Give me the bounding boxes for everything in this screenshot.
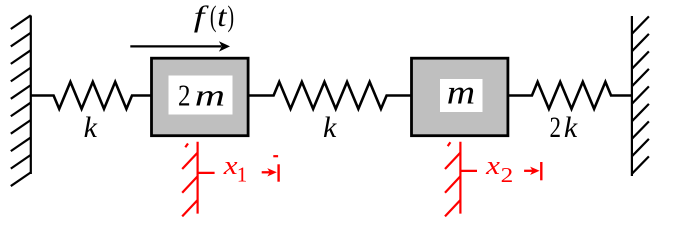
mass block m <box>412 58 508 136</box>
x2 arrow head <box>530 167 540 175</box>
svg-text:x: x <box>223 151 239 180</box>
svg-text:2m: 2m <box>178 78 225 113</box>
spring 2k (right, mass m to wall) <box>508 82 632 109</box>
force arrow shaft <box>130 45 221 47</box>
x1 measure bar <box>277 164 279 181</box>
x2 reference support line <box>459 142 461 214</box>
svg-text:k: k <box>323 111 337 144</box>
svg-text:2k: 2k <box>550 111 578 144</box>
right wall line <box>631 16 633 176</box>
right wall hatching <box>632 16 649 33</box>
x1 datum tick <box>198 172 215 174</box>
left wall hatching <box>11 15 31 29</box>
svg-text:f(t): f(t) <box>194 0 234 33</box>
svg-text:k: k <box>84 111 98 144</box>
x2 datum tick <box>460 170 477 172</box>
x2 measure bar <box>540 162 542 180</box>
svg-text:m: m <box>447 75 475 112</box>
svg-text:2: 2 <box>501 163 514 187</box>
white plate on mass 2m <box>169 76 233 115</box>
x2 support hatch tip <box>448 142 451 146</box>
left wall line <box>30 16 32 175</box>
white plate on mass m <box>440 79 483 112</box>
mass block 2m <box>152 58 249 136</box>
spring k (left, wall to mass 2m) <box>31 82 151 109</box>
x2 support hatching <box>445 153 460 169</box>
x1 arrow head <box>267 168 277 176</box>
x1 arrow shaft <box>262 171 272 173</box>
x1 dash above bar <box>273 155 278 157</box>
x1 support hatch tip <box>185 144 188 148</box>
x2 arrow shaft <box>524 170 534 172</box>
x1 reference support line <box>197 142 199 214</box>
force arrow head <box>219 41 230 51</box>
svg-text:x: x <box>485 151 501 180</box>
svg-text:1: 1 <box>237 162 248 186</box>
x1 support hatching <box>182 153 197 169</box>
spring k (middle, mass 2m to mass m) <box>248 82 411 109</box>
